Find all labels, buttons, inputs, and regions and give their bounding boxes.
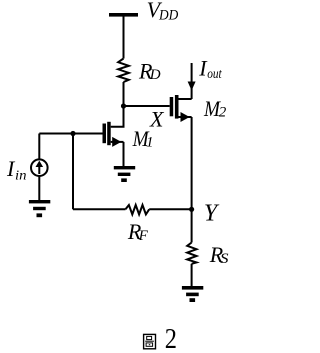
resistor RD [118, 59, 129, 83]
M2 source arrow [181, 112, 190, 122]
svg-text:X: X [149, 107, 165, 132]
ground under RS [182, 286, 203, 302]
wire M2 drain [179, 98, 192, 100]
label VDD [147, 0, 179, 24]
wire node X down to M1 drain [111, 106, 124, 127]
caption figure character [144, 334, 156, 348]
wire RF to node Y [149, 208, 191, 210]
current Iout arrow [188, 63, 196, 99]
node X junction dot [121, 103, 126, 108]
label RF [127, 219, 149, 244]
label M2 [203, 96, 227, 121]
label Iin [6, 156, 27, 183]
M1 source lead [111, 141, 124, 143]
resistor RF [126, 205, 150, 214]
wire Iin top [38, 134, 40, 160]
wire feedback to RF [73, 208, 126, 210]
svg-text:1: 1 [146, 135, 154, 151]
svg-text:F: F [138, 228, 149, 244]
label RD [138, 58, 161, 83]
wire feedback down [72, 134, 74, 210]
wire node X to M2 gate [124, 105, 170, 107]
node Y junction dot [189, 207, 194, 212]
M2 source lead [179, 116, 192, 118]
wire M1 source to ground [123, 142, 125, 167]
svg-text:2: 2 [165, 324, 177, 353]
M1 source arrow [112, 137, 121, 147]
wire node Y to RS [191, 209, 193, 242]
svg-text:S: S [220, 251, 229, 267]
label RS [209, 242, 229, 267]
svg-text:D: D [149, 67, 161, 83]
label M1 [132, 126, 154, 151]
transistor M2 [170, 95, 192, 122]
wire M2 source to node Y [191, 117, 193, 209]
wire M1 gate to input [39, 133, 102, 135]
svg-text:out: out [207, 67, 222, 82]
M1 channel bar [107, 122, 111, 145]
wire RS to ground [191, 264, 193, 287]
transistor M1 [103, 122, 124, 147]
wire Iin bottom [38, 176, 40, 201]
resistor RS [187, 243, 196, 264]
M2 gate bar [170, 97, 174, 116]
label Iout [198, 56, 222, 83]
M1 gate bar [103, 124, 107, 144]
ground under Iin [29, 200, 50, 217]
ground under M1 [114, 166, 135, 182]
svg-text:DD: DD [158, 8, 178, 24]
svg-text:2: 2 [219, 105, 227, 121]
power VDD bar [109, 13, 138, 17]
wire VDD to RD [123, 17, 125, 59]
current source Iin [31, 159, 48, 176]
junction dot feedback tap [70, 131, 75, 136]
M2 channel bar [175, 95, 179, 119]
svg-text:in: in [15, 168, 27, 183]
svg-text:Y: Y [204, 201, 220, 227]
wire RD to node X [123, 82, 125, 107]
